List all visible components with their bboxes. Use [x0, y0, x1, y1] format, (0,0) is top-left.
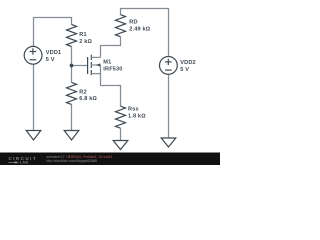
svg-text:IRF530: IRF530	[103, 67, 122, 73]
resistor Rss	[116, 106, 147, 128]
node gate junction	[70, 64, 74, 68]
voltage source VDD2	[160, 57, 196, 75]
transistor M1 NMOS	[88, 55, 123, 75]
svg-text:6.8 kΩ: 6.8 kΩ	[79, 96, 97, 102]
svg-text:2.49 kΩ: 2.49 kΩ	[129, 26, 150, 32]
ground under R2	[64, 131, 79, 141]
resistor RD	[116, 15, 151, 37]
wire R1 bottom through gate node to R2 top	[71, 47, 73, 83]
wire drain to RD bottom	[101, 37, 121, 58]
resistor R2	[67, 82, 98, 104]
ground under VDD2	[161, 138, 176, 147]
svg-text:Rss: Rss	[128, 107, 139, 113]
wire Rss bottom to ground	[120, 128, 122, 140]
wire gate node to MOSFET gate	[72, 65, 88, 67]
wire VDD2 bottom to ground	[168, 74, 170, 138]
svg-text:M1: M1	[103, 60, 111, 66]
ground under VDD1	[26, 131, 41, 141]
svg-text:RD: RD	[129, 19, 137, 25]
wire source to Rss top	[101, 74, 121, 107]
svg-text:1.8 kΩ: 1.8 kΩ	[128, 114, 146, 120]
svg-text:VDD2: VDD2	[180, 60, 196, 66]
voltage source VDD1	[24, 46, 61, 64]
svg-text:R2: R2	[79, 89, 86, 95]
svg-text:5 V: 5 V	[46, 57, 55, 63]
wire RD top to VDD2 top	[121, 9, 169, 57]
wire VDD1 bottom to ground	[33, 64, 35, 130]
svg-text:R1: R1	[79, 32, 86, 38]
svg-text:http://circuitlab.com/c5cyqsa5: http://circuitlab.com/c5cyqsa52666i	[47, 159, 98, 163]
wire R2 bottom to ground	[71, 104, 73, 130]
wire VDD1 top to R1 top	[34, 18, 72, 47]
svg-text:VDD1: VDD1	[46, 50, 62, 56]
watermark bar	[0, 153, 220, 166]
ground under Rss	[113, 141, 128, 150]
svg-text:2 kΩ: 2 kΩ	[79, 39, 92, 45]
resistor R1	[67, 25, 93, 47]
svg-text:LAB: LAB	[20, 161, 28, 165]
svg-text:5 V: 5 V	[180, 67, 189, 73]
